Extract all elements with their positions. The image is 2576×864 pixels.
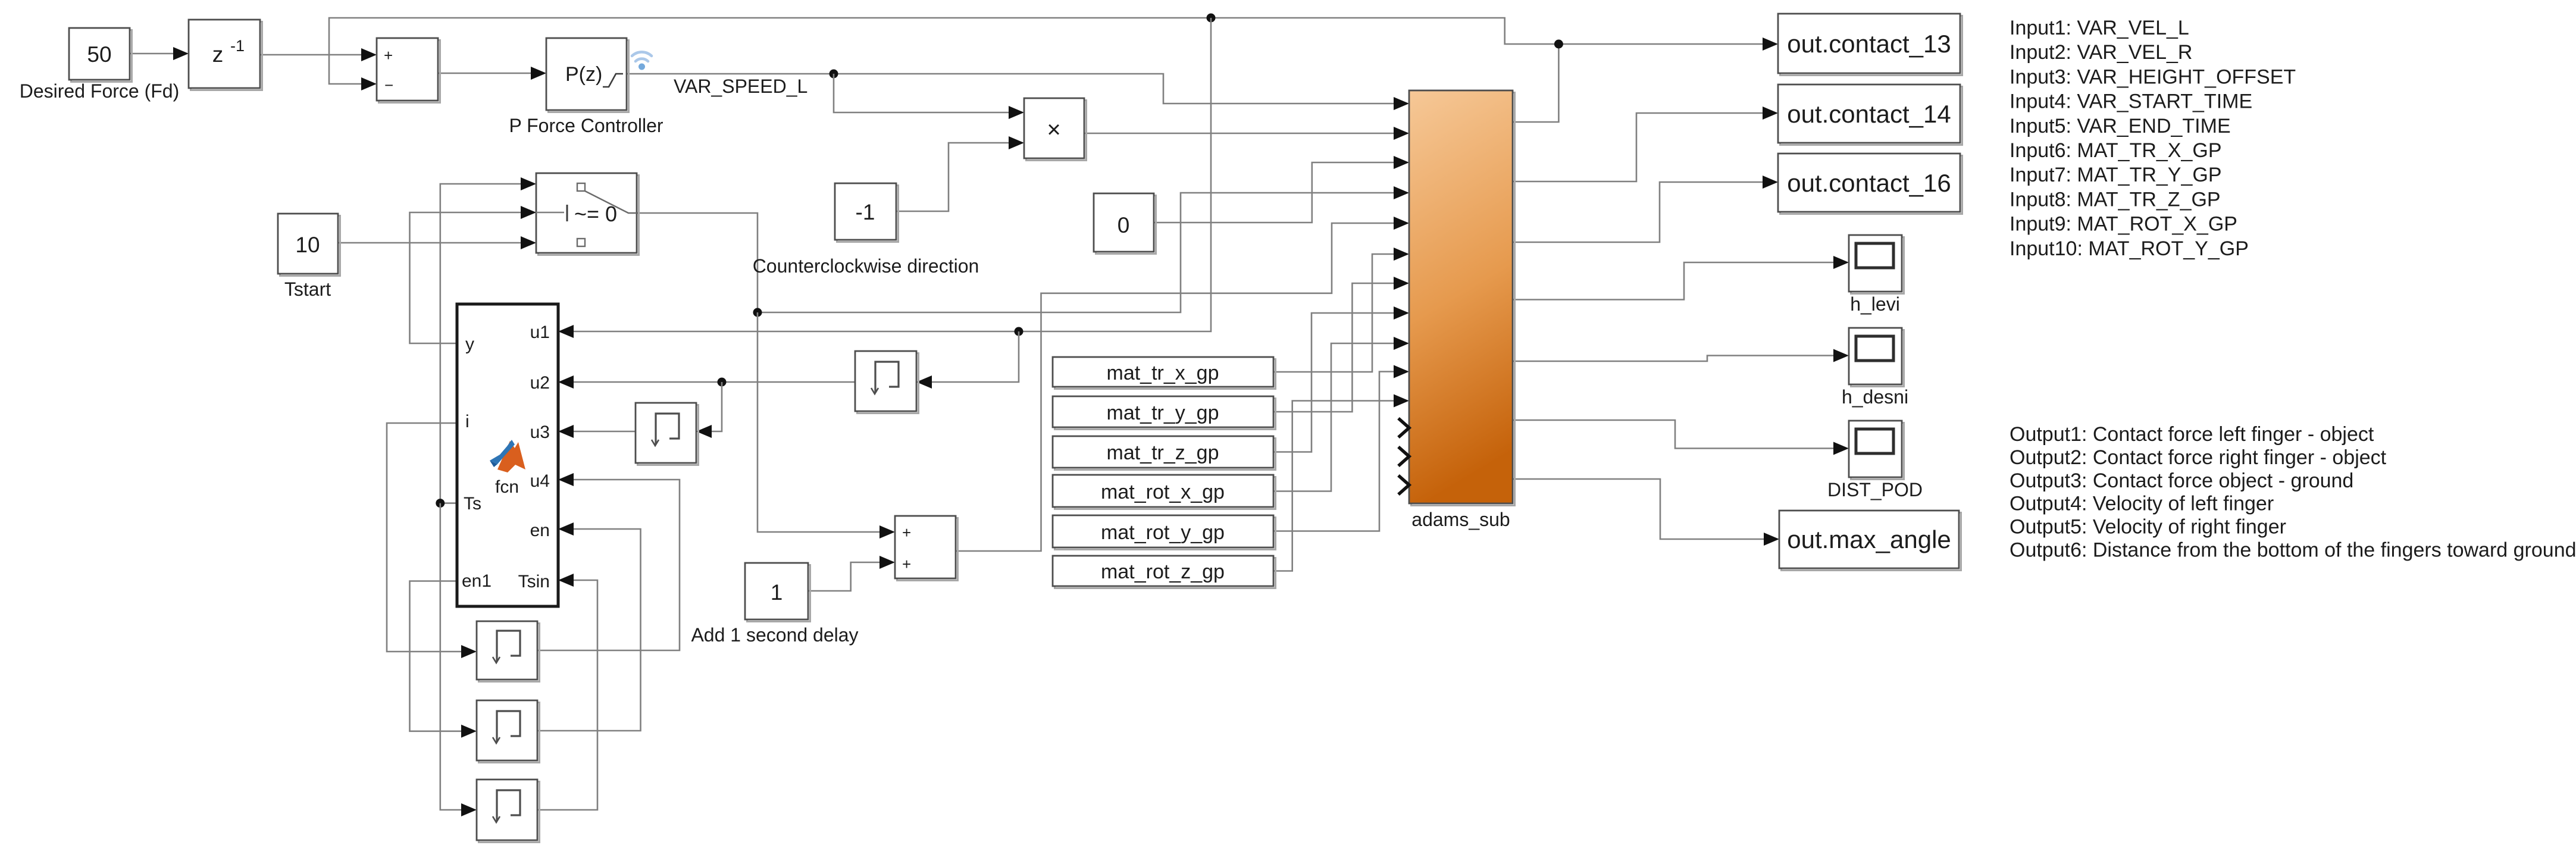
wire sum to P Force Controller xyxy=(438,67,546,80)
svg-text:Counterclockwise direction: Counterclockwise direction xyxy=(753,255,979,277)
wire fcn y output to switch input2 xyxy=(410,206,537,343)
constant 50 (Desired Force) xyxy=(20,28,180,102)
svg-text:Input5: VAR_END_TIME: Input5: VAR_END_TIME xyxy=(2010,115,2231,137)
wire mat_rot_y_gp to adams input10 xyxy=(1273,365,1409,531)
svg-text:1: 1 xyxy=(771,580,783,605)
svg-text:Output4: Velocity of left fing: Output4: Velocity of left finger xyxy=(2010,493,2274,515)
wire adams output4 to scope h_levi xyxy=(1513,256,1849,300)
outport out.contact_16 xyxy=(1778,154,1962,214)
sum block 2 xyxy=(895,516,958,581)
wire -1 to product input2 xyxy=(896,136,1024,211)
wire u2 branch to memory u3 input xyxy=(696,382,722,438)
constant 10 Tstart xyxy=(278,214,340,300)
memory block C xyxy=(477,780,540,843)
wire sum2 to adams input5 xyxy=(956,217,1409,551)
wire fcn Ts output to switch input1 xyxy=(440,177,536,503)
memory block u2 (flipped) xyxy=(855,351,919,414)
wifi icon xyxy=(632,52,652,70)
constant -1 xyxy=(753,183,979,277)
switch block xyxy=(536,173,639,255)
svg-text:adams_sub: adams_sub xyxy=(1411,509,1510,530)
wire switch output to adams input4 xyxy=(637,186,1409,312)
P Force Controller block xyxy=(509,38,663,136)
wire feedback top line to sum minus input xyxy=(329,18,1558,90)
node u2 line branch xyxy=(718,378,727,387)
svg-text:×: × xyxy=(1047,117,1060,143)
wire unit delay to sum plus input xyxy=(260,48,377,61)
svg-text:y: y xyxy=(465,334,474,354)
svg-text:VAR_SPEED_L: VAR_SPEED_L xyxy=(674,76,807,97)
svg-text:+: + xyxy=(902,555,911,573)
From block mat_rot_y_gp xyxy=(1053,515,1276,550)
wire product to adams input2 xyxy=(1084,127,1409,140)
wire switch branch to sum2 input1 xyxy=(758,312,895,539)
wire mat_tr_x_gp to adams input6 xyxy=(1273,248,1409,372)
wire memory A to fcn u4 xyxy=(537,473,680,650)
svg-text:Input2: VAR_VEL_R: Input2: VAR_VEL_R xyxy=(2010,41,2192,64)
svg-text:h_levi: h_levi xyxy=(1850,293,1900,315)
node top line branch to u1 xyxy=(1207,14,1216,23)
unconnected input marks on adams_sub xyxy=(1398,418,1409,494)
svg-text:en1: en1 xyxy=(462,571,492,591)
wire 1 constant to sum2 input2 xyxy=(808,556,895,591)
memory block A xyxy=(477,621,540,682)
svg-text:Output6: Distance from the bot: Output6: Distance from the bottom of the… xyxy=(2010,539,2576,562)
constant 1 (Add 1 second delay) xyxy=(691,563,858,646)
svg-text:Input10: MAT_ROT_Y_GP: Input10: MAT_ROT_Y_GP xyxy=(2010,237,2249,260)
wire fcn en1 output to memory B xyxy=(410,581,477,738)
svg-text:Add 1 second delay: Add 1 second delay xyxy=(691,624,858,646)
svg-text:fcn: fcn xyxy=(495,477,519,497)
wire mat_tr_y_gp to adams input7 xyxy=(1273,277,1409,412)
matlab logo xyxy=(490,440,525,472)
sum block 1 xyxy=(377,38,440,103)
svg-text:Input3: VAR_HEIGHT_OFFSET: Input3: VAR_HEIGHT_OFFSET xyxy=(2010,65,2296,88)
svg-text:out.contact_14: out.contact_14 xyxy=(1787,100,1951,128)
wire adams output6 to scope DIST_POD xyxy=(1513,420,1849,455)
wire memory B to fcn en xyxy=(537,522,641,731)
svg-text:+: + xyxy=(902,524,911,541)
node VAR_SPEED_L branch xyxy=(830,70,838,79)
svg-text:z: z xyxy=(212,42,224,67)
svg-text:mat_tr_y_gp: mat_tr_y_gp xyxy=(1107,402,1219,424)
From block mat_rot_x_gp xyxy=(1053,475,1276,509)
node adams output1 feedback branch xyxy=(1554,40,1563,49)
svg-text:Output2: Contact force right f: Output2: Contact force right finger - ob… xyxy=(2010,446,2387,469)
svg-text:h_desni: h_desni xyxy=(1842,386,1908,408)
node switch output branch xyxy=(753,308,762,317)
wire adams output3 to out.contact_16 xyxy=(1513,176,1778,242)
wire adams output2 to out.contact_14 xyxy=(1513,107,1778,181)
From block mat_tr_y_gp xyxy=(1053,396,1276,430)
wire u1 branch to memory u2 input xyxy=(916,331,1019,389)
outport out.max_angle xyxy=(1779,511,1961,571)
wire memory u2 output to fcn u2 xyxy=(558,375,855,389)
svg-text:out.contact_13: out.contact_13 xyxy=(1787,30,1951,58)
scope DIST_POD xyxy=(1827,421,1923,500)
wire mat_rot_z_gp to adams input11 xyxy=(1273,395,1409,571)
svg-text:mat_tr_x_gp: mat_tr_x_gp xyxy=(1107,362,1219,384)
svg-text:Input9: MAT_ROT_X_GP: Input9: MAT_ROT_X_GP xyxy=(2010,213,2237,236)
wire memory C to fcn Tsin xyxy=(537,574,597,810)
svg-text:Tstart: Tstart xyxy=(284,278,331,300)
From block mat_tr_z_gp xyxy=(1053,436,1276,470)
wire mat_rot_x_gp to adams input9 xyxy=(1273,337,1409,492)
From block mat_tr_x_gp xyxy=(1053,357,1276,389)
wire 50 to unit delay xyxy=(130,47,189,60)
svg-text:mat_rot_z_gp: mat_rot_z_gp xyxy=(1101,561,1225,583)
wire adams output7 to out.max_angle xyxy=(1513,479,1779,546)
svg-text:Input1: VAR_VEL_L: Input1: VAR_VEL_L xyxy=(2010,17,2189,39)
wire adams output5 to scope h_desni xyxy=(1513,349,1849,362)
wire adams output1 riser to out.contact_13 xyxy=(1513,37,1778,122)
outport out.contact_13 xyxy=(1778,14,1962,76)
wire memory u3 output to fcn u3 xyxy=(558,425,636,438)
adams_sub subsystem block xyxy=(1409,90,1515,530)
wire 0 constant to adams input3 xyxy=(1154,156,1409,223)
wire mat_tr_z_gp to adams input8 xyxy=(1273,306,1409,452)
wire VAR_SPEED_L branch to product input1 xyxy=(834,74,1024,119)
constant 0 xyxy=(1094,193,1156,254)
svg-text:DIST_POD: DIST_POD xyxy=(1827,479,1923,500)
svg-text:mat_rot_y_gp: mat_rot_y_gp xyxy=(1101,521,1225,544)
annotation output list xyxy=(2010,423,2576,562)
svg-text:out.max_angle: out.max_angle xyxy=(1787,525,1951,553)
svg-text:Input6: MAT_TR_X_GP: Input6: MAT_TR_X_GP xyxy=(2010,139,2222,162)
svg-text:i: i xyxy=(465,412,469,431)
svg-text:50: 50 xyxy=(87,42,111,67)
svg-text:en: en xyxy=(530,521,550,540)
svg-text:Input4: VAR_START_TIME: Input4: VAR_START_TIME xyxy=(2010,90,2252,113)
unit delay block xyxy=(189,20,262,90)
svg-text:Input8: MAT_TR_Z_GP: Input8: MAT_TR_Z_GP xyxy=(2010,188,2221,211)
svg-text:Input7: MAT_TR_Y_GP: Input7: MAT_TR_Y_GP xyxy=(2010,164,2222,186)
svg-text:u1: u1 xyxy=(530,323,550,342)
memory block u3 (flipped) xyxy=(636,403,699,465)
wire P(z) output VAR_SPEED_L to adams input1 xyxy=(627,74,1409,110)
svg-text:Ts: Ts xyxy=(464,494,481,514)
svg-text:-1: -1 xyxy=(856,200,875,224)
wire top line down to fcn u1 xyxy=(558,18,1211,338)
annotation input list xyxy=(2010,17,2296,260)
wire Tstart to switch input3 xyxy=(338,236,536,249)
svg-text:mat_rot_x_gp: mat_rot_x_gp xyxy=(1101,481,1225,503)
svg-text:+: + xyxy=(384,46,393,64)
svg-text:Output3: Contact force object: Output3: Contact force object - ground xyxy=(2010,469,2353,492)
svg-text:~= 0: ~= 0 xyxy=(574,202,617,226)
svg-text:u3: u3 xyxy=(530,422,550,442)
svg-text:−: − xyxy=(384,76,393,94)
svg-text:10: 10 xyxy=(295,233,320,257)
svg-text:0: 0 xyxy=(1118,213,1130,237)
svg-text:u4: u4 xyxy=(530,471,550,491)
svg-text:P(z): P(z) xyxy=(565,63,602,86)
scope h_levi xyxy=(1849,235,1904,315)
svg-text:out.contact_16: out.contact_16 xyxy=(1787,169,1951,197)
wire Ts branch to memory C xyxy=(440,503,477,816)
MATLAB function block fcn xyxy=(457,304,558,606)
svg-text:u2: u2 xyxy=(530,373,550,393)
svg-text:mat_tr_z_gp: mat_tr_z_gp xyxy=(1107,442,1219,464)
svg-text:Output5: Velocity of right fin: Output5: Velocity of right finger xyxy=(2010,516,2286,539)
scope h_desni xyxy=(1842,328,1908,408)
node u1 line branch to memory right xyxy=(1015,327,1023,336)
svg-text:Desired Force (Fd): Desired Force (Fd) xyxy=(20,80,180,102)
svg-text:Output1: Contact force left fi: Output1: Contact force left finger - obj… xyxy=(2010,423,2374,446)
From block mat_rot_z_gp xyxy=(1053,556,1276,588)
svg-text:-1: -1 xyxy=(230,37,245,55)
wire fcn i output to memory A xyxy=(387,423,477,658)
svg-text:P Force Controller: P Force Controller xyxy=(509,115,663,136)
product block xyxy=(1024,98,1087,161)
memory block B xyxy=(477,700,540,763)
node Ts branch xyxy=(436,499,445,508)
outport out.contact_14 xyxy=(1778,84,1962,145)
svg-text:Tsin: Tsin xyxy=(518,572,550,591)
